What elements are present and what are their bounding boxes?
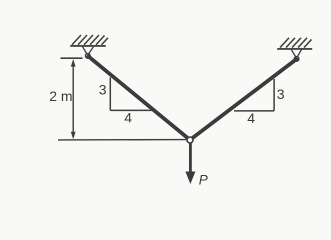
svg-text:4: 4 [247,110,255,126]
svg-text:2 m: 2 m [49,88,72,104]
svg-text:4: 4 [124,110,132,126]
svg-text:P: P [199,172,208,187]
svg-text:3: 3 [99,82,107,98]
svg-text:3: 3 [277,86,285,102]
